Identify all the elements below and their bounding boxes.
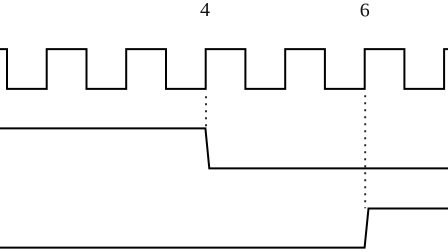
signal B waveform (low, rises at t=6) xyxy=(0,209,448,248)
dotted marker line at t=6 xyxy=(364,95,366,208)
clock signal waveform xyxy=(0,49,448,89)
svg-text:4: 4 xyxy=(200,0,210,21)
svg-text:6: 6 xyxy=(360,0,370,22)
dotted marker line at t=4 xyxy=(205,96,207,127)
signal A waveform (high, falls at t=4) xyxy=(0,128,448,168)
